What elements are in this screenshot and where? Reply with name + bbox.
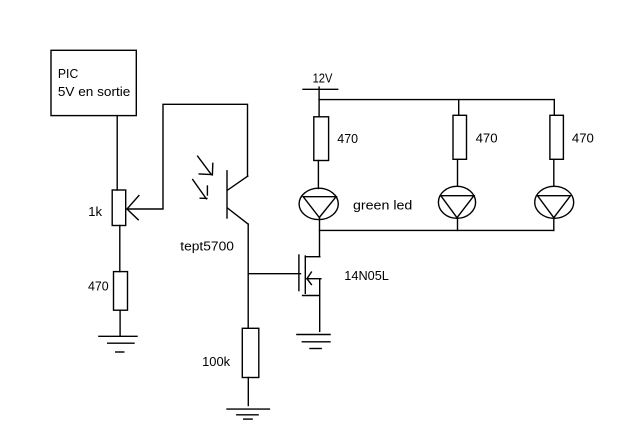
svg-text:470: 470 (476, 130, 498, 145)
wire resistor 470 to ground (119, 310, 121, 336)
potentiometer 1k (112, 190, 139, 226)
LED D3 (535, 186, 574, 218)
label 12V (313, 70, 333, 85)
svg-text:470: 470 (572, 130, 594, 145)
resistor 100k (242, 328, 258, 377)
wire 100k to ground (247, 378, 249, 406)
wire LED D3 to bottom rail (553, 218, 555, 230)
wire R3 to LED D3 (553, 159, 555, 186)
label green led (353, 198, 412, 213)
phototransistor TEPT5700 (227, 171, 248, 224)
wire LED D1 to bottom rail and MOSFET drain (319, 218, 321, 257)
resistor R2 470 (453, 115, 467, 159)
ground (under 100k) (227, 409, 269, 419)
wire R1 to LED D1 (317, 161, 319, 189)
svg-text:100k: 100k (202, 354, 230, 369)
svg-text:14N05L: 14N05L (344, 268, 389, 283)
wire PIC output to potentiometer top (116, 116, 118, 190)
svg-text:470: 470 (337, 131, 358, 146)
wire emitter down to gate node (247, 224, 249, 274)
svg-text:470: 470 (88, 278, 109, 293)
wire 12V down to resistor R1 (318, 87, 320, 117)
wire R2 to LED D2 (457, 159, 459, 186)
label 470 (R2) (476, 130, 498, 145)
svg-text:tept5700: tept5700 (180, 238, 234, 253)
label 14N05L (344, 268, 389, 283)
label 100k (202, 354, 230, 369)
light arrow 2 (193, 180, 208, 199)
12V supply tick (303, 88, 338, 90)
svg-text:5V en sortie: 5V en sortie (58, 84, 130, 99)
svg-text:12V: 12V (313, 70, 333, 85)
wire top rail to resistor R3 (553, 100, 555, 116)
PIC box (PIC 5V en sortie) (51, 50, 136, 115)
LED D1 (299, 188, 338, 219)
svg-text:green led: green led (353, 198, 412, 213)
resistor R3 470 (550, 115, 564, 159)
wire gate node down to resistor 100k (247, 274, 249, 329)
top rail wire (319, 99, 554, 101)
ground (under MOSFET) (297, 335, 330, 349)
label 470 (left) (88, 278, 109, 293)
resistor R1 470 (314, 117, 329, 161)
LED D2 (438, 186, 475, 218)
MOSFET 14N05L (299, 255, 321, 296)
ground (left) (99, 336, 137, 352)
wire pot bottom to resistor 470 (119, 226, 121, 272)
label 470 (R3) (572, 130, 594, 145)
label tept5700 (180, 238, 234, 253)
label 1k (88, 204, 102, 219)
wire gate node to MOSFET gate (248, 273, 300, 275)
bottom rail wire (320, 229, 554, 231)
wire top rail to resistor R2 (458, 100, 460, 116)
wire LED D2 to bottom rail (457, 218, 459, 230)
svg-text:1k: 1k (88, 204, 102, 219)
wire wiper to phototransistor collector (128, 104, 248, 209)
svg-text:PIC: PIC (58, 66, 79, 81)
resistor 470 (left) (114, 272, 128, 311)
label 470 (R1) (337, 131, 358, 146)
wire MOSFET source to ground (319, 279, 321, 332)
light arrow 1 (198, 156, 213, 175)
